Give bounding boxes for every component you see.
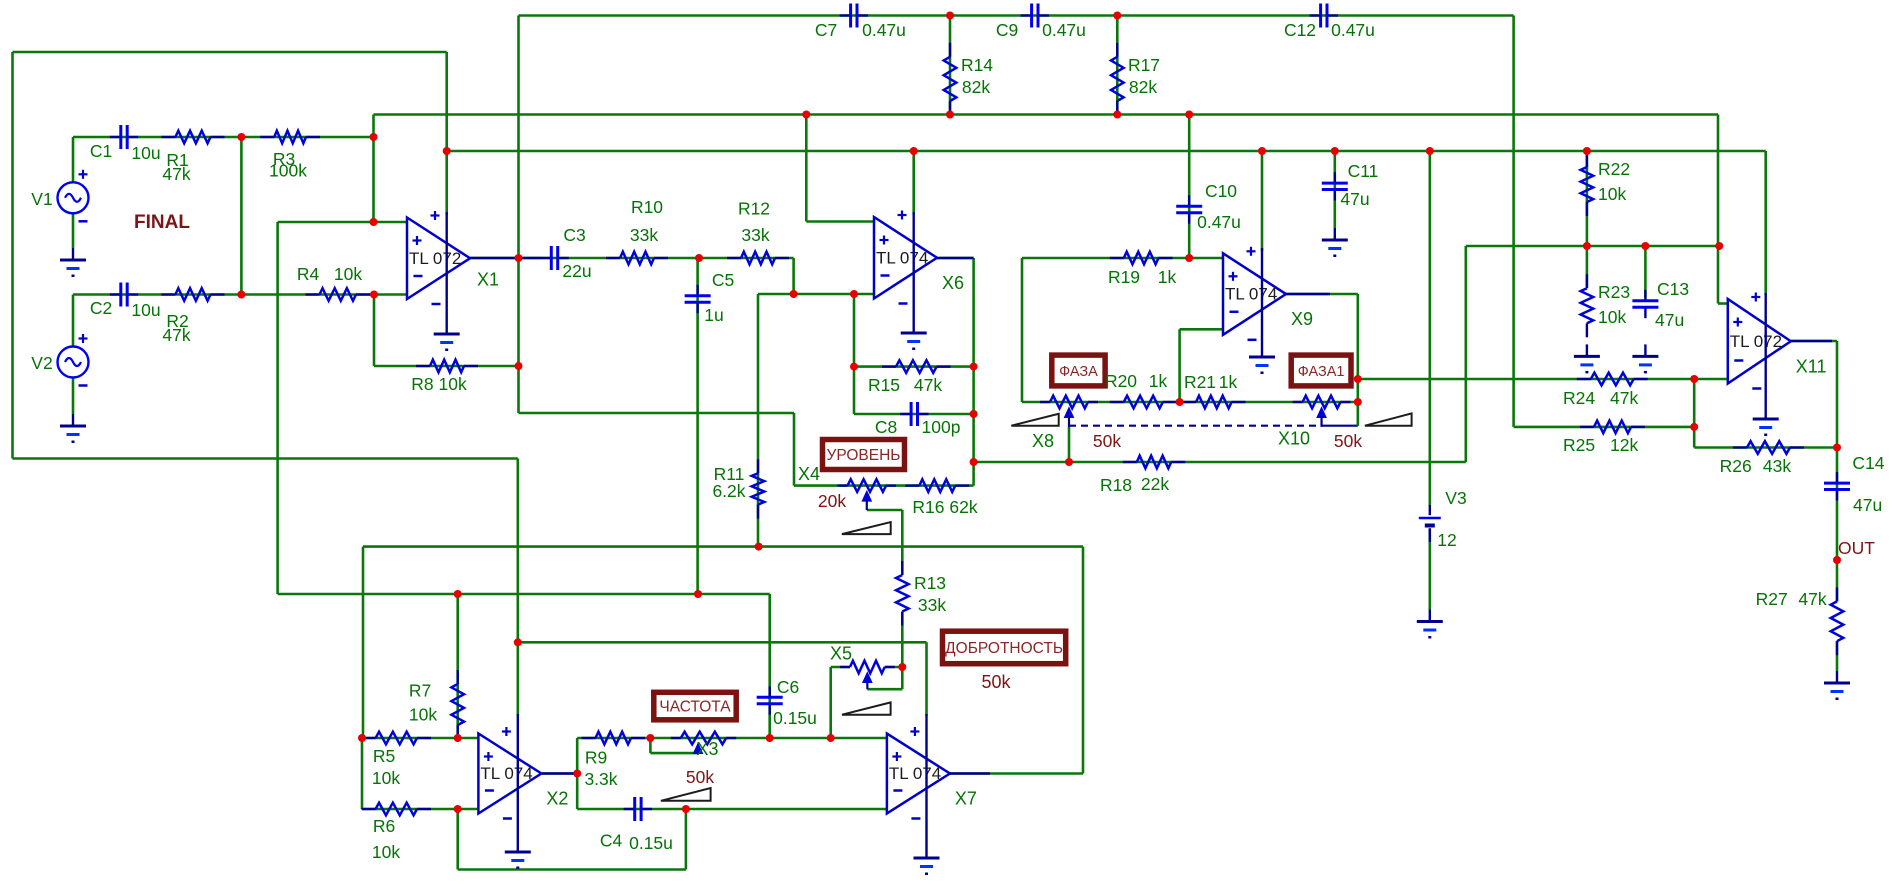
- svg-text:0.47u: 0.47u: [862, 20, 906, 40]
- svg-text:100p: 100p: [922, 417, 961, 437]
- svg-text:100k: 100k: [269, 161, 307, 181]
- svg-text:50k: 50k: [1334, 431, 1362, 451]
- svg-text:X11: X11: [1796, 356, 1827, 376]
- svg-text:C5: C5: [712, 270, 734, 290]
- svg-text:ФАЗА1: ФАЗА1: [1298, 364, 1345, 380]
- svg-text:43k: 43k: [1763, 456, 1791, 476]
- svg-text:33k: 33k: [630, 225, 658, 245]
- svg-text:R14: R14: [961, 55, 993, 75]
- svg-text:R16 62k: R16 62k: [912, 497, 977, 517]
- svg-text:X5: X5: [830, 644, 852, 664]
- svg-text:82k: 82k: [1129, 77, 1157, 97]
- svg-text:C3: C3: [563, 225, 585, 245]
- svg-text:OUT: OUT: [1838, 538, 1875, 558]
- svg-text:82k: 82k: [962, 77, 990, 97]
- svg-text:TL 074: TL 074: [480, 764, 532, 783]
- svg-text:C4: C4: [600, 831, 623, 851]
- svg-text:C8: C8: [875, 417, 897, 437]
- svg-text:10u: 10u: [131, 300, 160, 320]
- svg-text:X7: X7: [955, 789, 977, 809]
- svg-text:R26: R26: [1720, 456, 1752, 476]
- svg-text:X4: X4: [798, 464, 820, 484]
- svg-text:0.47u: 0.47u: [1042, 20, 1086, 40]
- svg-text:X3: X3: [696, 739, 718, 759]
- svg-text:R7: R7: [409, 681, 431, 701]
- svg-text:C12: C12: [1284, 20, 1316, 40]
- svg-text:10k: 10k: [1598, 307, 1626, 327]
- svg-text:R21: R21: [1184, 372, 1216, 392]
- svg-text:X9: X9: [1291, 309, 1313, 329]
- svg-text:V3: V3: [1445, 488, 1466, 508]
- svg-text:X8: X8: [1032, 431, 1054, 451]
- svg-text:1u: 1u: [704, 305, 723, 325]
- svg-text:10k: 10k: [334, 264, 362, 284]
- svg-text:ФАЗА: ФАЗА: [1059, 364, 1098, 380]
- svg-text:C1: C1: [90, 141, 112, 161]
- svg-text:R20: R20: [1105, 371, 1137, 391]
- svg-text:50k: 50k: [1093, 431, 1121, 451]
- svg-text:47k: 47k: [162, 325, 190, 345]
- svg-text:0.47u: 0.47u: [1331, 20, 1375, 40]
- svg-text:R8 10k: R8 10k: [411, 374, 467, 394]
- svg-text:47k: 47k: [1610, 388, 1638, 408]
- svg-text:C7: C7: [815, 20, 837, 40]
- svg-text:FINAL: FINAL: [134, 212, 190, 233]
- svg-text:33k: 33k: [918, 595, 946, 615]
- svg-text:R5: R5: [373, 746, 395, 766]
- svg-text:47k: 47k: [1798, 589, 1826, 609]
- svg-text:20k: 20k: [818, 491, 846, 511]
- svg-text:C14: C14: [1852, 453, 1884, 473]
- svg-text:R15: R15: [868, 375, 900, 395]
- svg-text:22k: 22k: [1141, 474, 1169, 494]
- svg-text:0.15u: 0.15u: [773, 708, 817, 728]
- svg-text:R22: R22: [1598, 159, 1630, 179]
- svg-text:R12: R12: [738, 199, 770, 219]
- svg-text:X6: X6: [942, 273, 964, 293]
- svg-text:R13: R13: [914, 573, 946, 593]
- svg-text:10u: 10u: [131, 143, 160, 163]
- svg-text:1k: 1k: [1219, 372, 1238, 392]
- svg-text:ДОБРОТНОСТЬ: ДОБРОТНОСТЬ: [945, 640, 1063, 657]
- svg-text:3.3k: 3.3k: [584, 769, 617, 789]
- svg-text:R6: R6: [373, 816, 395, 836]
- svg-text:47k: 47k: [162, 164, 190, 184]
- svg-text:X10: X10: [1278, 429, 1310, 449]
- svg-text:47u: 47u: [1655, 310, 1684, 330]
- svg-text:10k: 10k: [372, 842, 400, 862]
- svg-text:R19: R19: [1108, 267, 1140, 287]
- svg-text:R9: R9: [585, 748, 607, 768]
- svg-text:R24: R24: [1563, 388, 1595, 408]
- svg-text:TL 074: TL 074: [1225, 285, 1277, 304]
- svg-text:R18: R18: [1100, 475, 1132, 495]
- svg-text:6.2k: 6.2k: [712, 481, 745, 501]
- svg-text:R23: R23: [1598, 282, 1630, 302]
- svg-text:C11: C11: [1348, 161, 1379, 181]
- svg-text:C13: C13: [1657, 279, 1689, 299]
- svg-text:R10: R10: [631, 197, 663, 217]
- svg-text:47u: 47u: [1853, 495, 1882, 515]
- svg-text:C6: C6: [777, 677, 799, 697]
- svg-text:12k: 12k: [1610, 435, 1638, 455]
- svg-text:1k: 1k: [1149, 371, 1168, 391]
- svg-text:50k: 50k: [686, 767, 714, 787]
- svg-text:47u: 47u: [1340, 189, 1369, 209]
- svg-text:0.15u: 0.15u: [629, 833, 673, 853]
- svg-text:0.47u: 0.47u: [1197, 212, 1241, 232]
- svg-text:12: 12: [1437, 530, 1456, 550]
- svg-text:50k: 50k: [981, 672, 1011, 692]
- svg-text:R27: R27: [1756, 589, 1788, 609]
- svg-text:TL 074: TL 074: [889, 764, 941, 783]
- svg-text:10k: 10k: [372, 768, 400, 788]
- svg-text:R4: R4: [297, 264, 320, 284]
- svg-text:33k: 33k: [741, 225, 769, 245]
- svg-text:C2: C2: [90, 298, 112, 318]
- svg-text:22u: 22u: [562, 261, 591, 281]
- svg-text:V1: V1: [31, 189, 52, 209]
- svg-text:TL 072: TL 072: [409, 249, 461, 268]
- svg-text:10k: 10k: [1598, 184, 1626, 204]
- svg-text:TL 072: TL 072: [1730, 332, 1782, 351]
- svg-text:R25: R25: [1563, 435, 1595, 455]
- svg-text:ЧАСТОТА: ЧАСТОТА: [659, 699, 731, 716]
- svg-text:C10: C10: [1205, 181, 1237, 201]
- svg-text:10k: 10k: [409, 705, 437, 725]
- svg-text:R17: R17: [1128, 55, 1160, 75]
- svg-text:TL 074: TL 074: [876, 248, 928, 267]
- svg-text:X1: X1: [477, 269, 499, 289]
- svg-text:47k: 47k: [914, 375, 942, 395]
- svg-text:V2: V2: [31, 353, 52, 373]
- svg-text:X2: X2: [546, 789, 568, 809]
- svg-text:1k: 1k: [1158, 267, 1177, 287]
- svg-text:УРОВЕНЬ: УРОВЕНЬ: [827, 447, 901, 464]
- svg-text:C9: C9: [996, 20, 1018, 40]
